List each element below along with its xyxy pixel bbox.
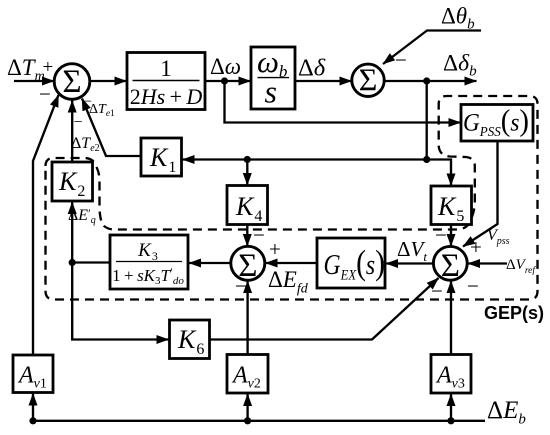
svg-text:−: − <box>431 279 443 303</box>
svg-text:ΔTe1: ΔTe1 <box>89 102 115 119</box>
svg-text:ΔE′q: ΔE′q <box>68 206 96 226</box>
svg-text:ΔEfd: ΔEfd <box>268 267 309 297</box>
svg-text:Σ: Σ <box>359 62 378 98</box>
svg-text:−: − <box>39 82 51 106</box>
svg-text:+: + <box>269 237 281 261</box>
svg-text:ΔTe2: ΔTe2 <box>71 135 100 154</box>
svg-text:ΔVt: ΔVt <box>397 237 427 264</box>
svg-text:Vpss: Vpss <box>487 227 510 247</box>
svg-text:ΔTm: ΔTm <box>7 55 45 84</box>
svg-text:GEP(s): GEP(s) <box>484 303 544 323</box>
svg-text:Σ: Σ <box>441 248 460 284</box>
svg-text:Δδb: Δδb <box>443 51 477 80</box>
svg-text:+: + <box>470 235 482 259</box>
svg-text:ΔVref: ΔVref <box>506 257 536 276</box>
svg-text:−: − <box>74 114 83 131</box>
svg-text:Σ: Σ <box>62 64 81 100</box>
svg-text:−: − <box>467 274 479 298</box>
svg-text:ΔEb: ΔEb <box>487 397 526 428</box>
svg-text:−: − <box>235 274 247 298</box>
svg-text:+: + <box>43 57 54 78</box>
svg-text:−: − <box>435 223 447 247</box>
svg-text:Δδ: Δδ <box>298 55 326 82</box>
svg-text:−: − <box>395 48 407 72</box>
svg-text:Δθb: Δθb <box>441 4 475 33</box>
svg-text:−: − <box>253 223 265 247</box>
svg-text:2Hs + D: 2Hs + D <box>130 84 203 109</box>
svg-text:Δω: Δω <box>210 54 241 79</box>
svg-text:s: s <box>265 74 277 110</box>
svg-text:1: 1 <box>160 56 172 81</box>
